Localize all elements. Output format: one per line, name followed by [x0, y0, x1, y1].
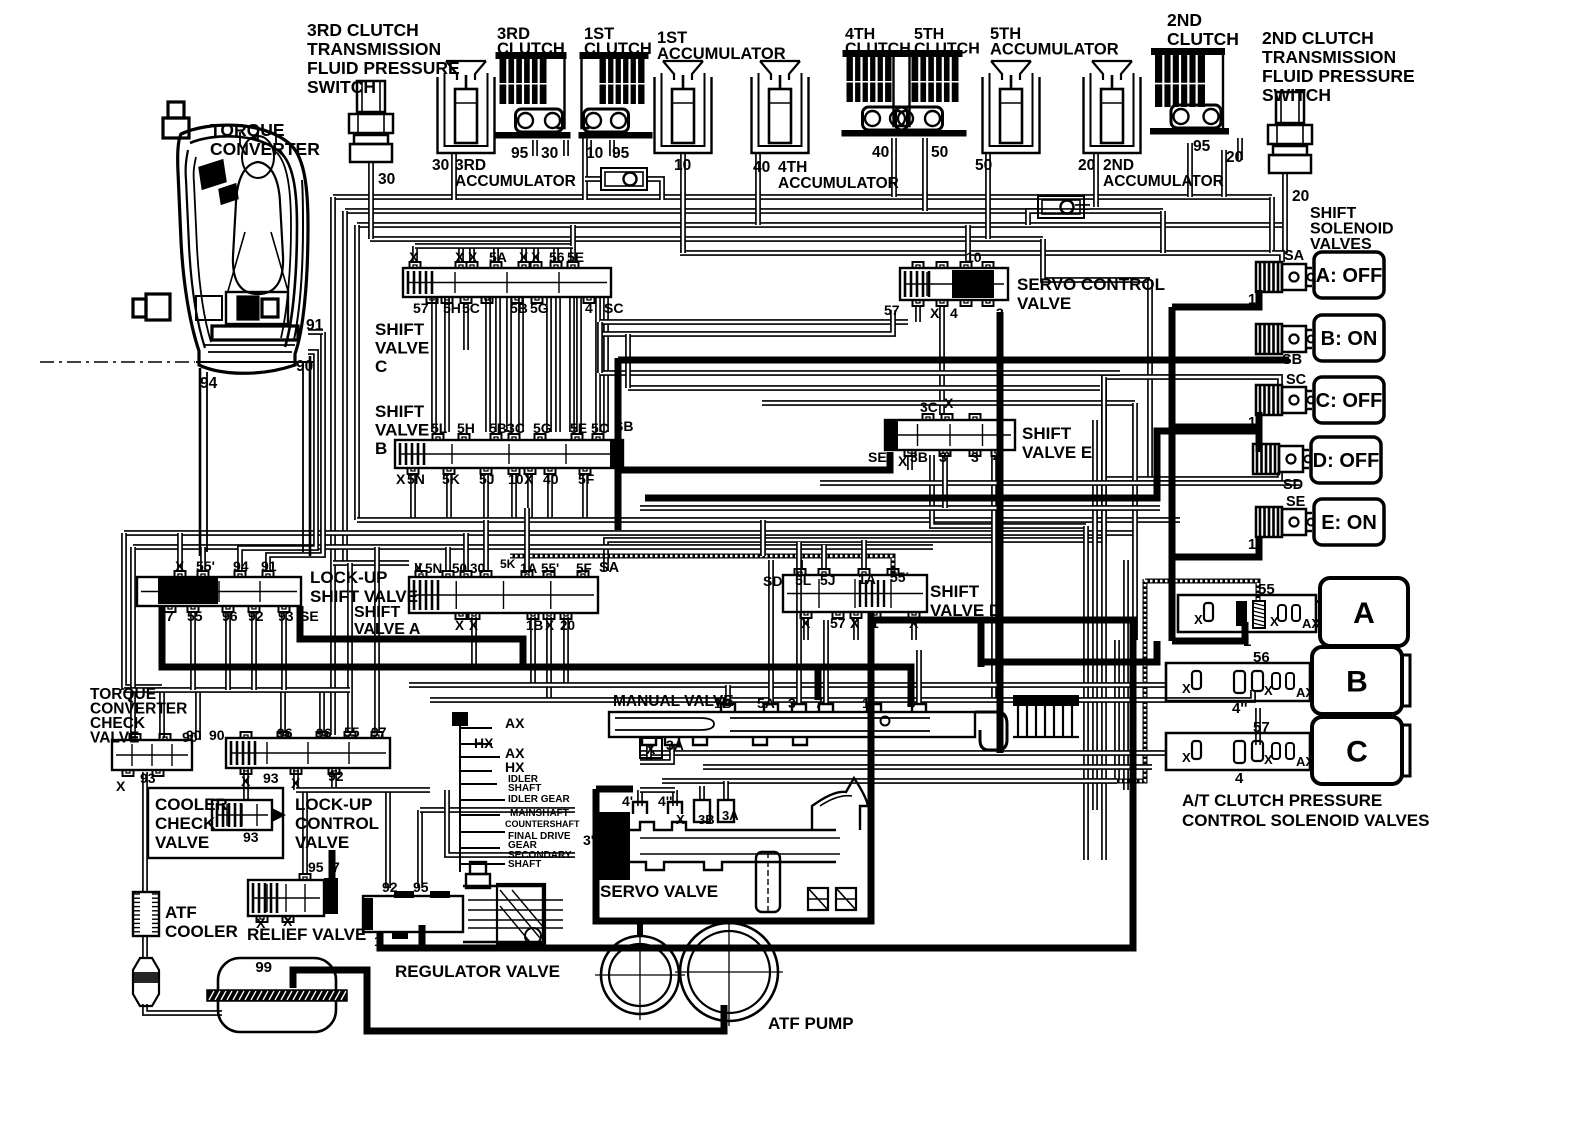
- wire valve C port 606 down: [603, 297, 609, 432]
- svg-text:SHIFT: SHIFT: [1310, 205, 1356, 222]
- wire 3rd clutch 95 stub: [532, 140, 538, 156]
- wire 5th accumulator 50 drop: [985, 153, 991, 239]
- svg-text:92: 92: [248, 608, 264, 624]
- svg-text:X: X: [801, 615, 811, 631]
- 4th clutch: [842, 50, 916, 137]
- svg-text:SOLENOID: SOLENOID: [1310, 221, 1394, 238]
- 5th accumulator: [983, 61, 1040, 153]
- svg-text:X: X: [175, 558, 185, 574]
- svg-text:5B: 5B: [510, 300, 528, 316]
- svg-text:FLUID PRESSURE: FLUID PRESSURE: [307, 58, 460, 78]
- solenoid SD: [1253, 444, 1312, 474]
- wire valve A riser 1A: [524, 508, 530, 572]
- wire lockup ctl feed: [280, 690, 286, 733]
- svg-text:4: 4: [950, 305, 958, 321]
- svg-text:40: 40: [872, 144, 889, 161]
- wire servo ctl 57 drop: [915, 306, 921, 322]
- servo valve black piston: [598, 812, 630, 880]
- svg-text:E: ON: E: ON: [1321, 512, 1377, 534]
- check valve near 1st clutch: [601, 168, 647, 190]
- wire valve A riser 5N: [445, 547, 451, 572]
- 3rd clutch: [495, 52, 571, 139]
- wire low run y767: [703, 764, 1152, 770]
- svg-text:X: X: [524, 471, 534, 487]
- svg-text:SE: SE: [300, 608, 319, 624]
- svg-text:1A: 1A: [520, 561, 538, 576]
- wire valve C port 498 down: [495, 297, 501, 432]
- svg-text:5L: 5L: [795, 572, 812, 588]
- svg-text:SHIFT: SHIFT: [930, 582, 980, 601]
- wire lockup ctl drop 2: [331, 770, 337, 790]
- wire valve B port 514 down: [511, 474, 517, 520]
- A/T clutch pressure control solenoid A: [1178, 595, 1316, 632]
- wire manual X down: [646, 745, 652, 762]
- solenoid D OFF box: [1311, 437, 1381, 483]
- svg-text:ACCUMULATOR: ACCUMULATOR: [778, 175, 899, 192]
- wire mid run y373: [600, 370, 1120, 376]
- wire valve C port 447 down: [444, 297, 450, 432]
- svg-text:96: 96: [316, 725, 332, 741]
- svg-text:X: X: [409, 249, 419, 265]
- wire valve A riser 30: [483, 520, 489, 572]
- wire valve B port 550 down: [547, 474, 553, 520]
- bold lock-up SE: [300, 606, 523, 667]
- shift valve B: [395, 434, 623, 474]
- servo small hatched boxes: [808, 888, 828, 910]
- svg-text:X: X: [469, 618, 478, 633]
- svg-text:3': 3': [939, 449, 950, 465]
- relief valve: [248, 874, 324, 922]
- wire 4th clutch 40 drop: [891, 138, 897, 197]
- wire left bundle 2: [342, 211, 348, 563]
- wire lockup ctl to cooler check: [243, 770, 249, 800]
- svg-text:93: 93: [263, 770, 279, 786]
- wire mid run y533: [124, 530, 1133, 536]
- svg-text:5G: 5G: [533, 420, 552, 436]
- wire valve D stub 1A: [861, 540, 867, 568]
- wire valve C port 572 down: [569, 297, 575, 432]
- wire 3rd switch 30 drop: [368, 162, 374, 239]
- wire SD feed: [1104, 472, 1280, 479]
- wire 2nd clutch 95 drop: [1187, 143, 1193, 197]
- svg-text:VALVE E: VALVE E: [1022, 443, 1092, 462]
- svg-text:SA: SA: [599, 560, 620, 576]
- svg-text:57: 57: [1253, 719, 1270, 736]
- svg-text:96: 96: [277, 725, 293, 741]
- svg-text:TRANSMISSION: TRANSMISSION: [1262, 47, 1396, 67]
- wire C 57 feed: [1255, 708, 1261, 745]
- svg-text:95: 95: [511, 145, 529, 162]
- svg-text:VALVE D: VALVE D: [930, 601, 1001, 620]
- svg-text:3: 3: [788, 695, 796, 711]
- svg-text:5B: 5B: [489, 420, 507, 436]
- wire low run y790: [296, 787, 430, 793]
- wire servo 4'' feed: [672, 790, 678, 806]
- svg-text:5A: 5A: [757, 695, 775, 711]
- wire lockup valve drop 96: [225, 612, 231, 690]
- svg-text:93: 93: [243, 829, 259, 845]
- svg-text:ACCUMULATOR: ACCUMULATOR: [455, 173, 576, 190]
- lube line vertical: [775, 579, 1145, 781]
- wire valve C top header: [415, 243, 573, 249]
- wire valve C port 509 down: [506, 297, 512, 432]
- wire manual 7: [823, 620, 829, 704]
- servo control valve spool black: [952, 270, 994, 298]
- wire valve C port 434 down: [431, 297, 437, 432]
- svg-text:3RD: 3RD: [455, 157, 486, 174]
- torque converter: [133, 102, 308, 373]
- svg-text:2ND: 2ND: [1167, 10, 1202, 30]
- wire mid run y403: [762, 400, 1135, 406]
- wire mid run y520: [357, 517, 1180, 523]
- wire valve B port 530 down: [527, 474, 533, 520]
- svg-text:92: 92: [328, 768, 344, 784]
- svg-text:2ND: 2ND: [1103, 157, 1134, 174]
- svg-text:A/T CLUTCH PRESSURE: A/T CLUTCH PRESSURE: [1182, 791, 1382, 810]
- svg-text:57: 57: [884, 302, 900, 318]
- svg-text:5G: 5G: [530, 300, 549, 316]
- wire funnel to strainer: [145, 1004, 222, 1013]
- svg-text:1: 1: [1248, 537, 1256, 553]
- wire vertical 1086: [1083, 526, 1089, 860]
- svg-text:X: X: [455, 249, 465, 265]
- shift valve E: [885, 414, 1015, 456]
- svg-text:X: X: [1270, 614, 1279, 629]
- wire valve E drop x945: [942, 455, 948, 508]
- wire check valve 1 left: [585, 176, 601, 182]
- torque converter lower housing: [200, 356, 310, 556]
- manual valve: [609, 704, 1007, 750]
- wire valve C top stub 496: [493, 246, 499, 262]
- svg-text:SHAFT: SHAFT: [508, 783, 541, 794]
- wire manual 3A down: [640, 745, 672, 762]
- wire cooler feed: [142, 772, 148, 892]
- gear train comb: [460, 722, 505, 872]
- wire mid run y547: [133, 544, 933, 550]
- solenoid SB: [1256, 324, 1315, 354]
- svg-text:20: 20: [1226, 149, 1243, 166]
- svg-text:X: X: [1182, 681, 1191, 696]
- svg-text:X: X: [1264, 683, 1273, 698]
- torque converter check valve: [112, 734, 192, 776]
- 4th accumulator: [752, 61, 809, 153]
- svg-text:X: X: [898, 453, 908, 469]
- svg-text:LOCK-UP: LOCK-UP: [295, 795, 372, 814]
- wire 2nd clutch 20 drop: [1221, 150, 1227, 197]
- wire port 55 riser: [200, 547, 206, 571]
- wire 5th clutch 50 drop: [922, 138, 928, 211]
- svg-text:20: 20: [1292, 188, 1309, 205]
- svg-text:1: 1: [374, 933, 382, 949]
- svg-text:5N: 5N: [425, 561, 442, 576]
- port X boxed: [640, 738, 662, 758]
- solenoid E ON box: [1314, 499, 1384, 545]
- svg-text:3A: 3A: [722, 808, 739, 823]
- svg-text:93: 93: [278, 608, 294, 624]
- svg-text:50: 50: [975, 157, 992, 174]
- svg-text:4: 4: [585, 300, 593, 316]
- svg-text:ACCUMULATOR: ACCUMULATOR: [990, 41, 1119, 59]
- wire valve C top stub 524: [521, 246, 527, 262]
- wire low run y781: [662, 778, 1117, 784]
- svg-text:5K: 5K: [500, 557, 516, 571]
- 2nd clutch pressure switch: [1268, 92, 1312, 173]
- svg-text:10: 10: [508, 471, 524, 487]
- wire run y810: [420, 807, 575, 813]
- lock-up shift valve: [137, 571, 301, 612]
- bold stub: [815, 667, 822, 700]
- wire mid run y388: [628, 385, 1100, 391]
- wire top run 1: [333, 194, 1272, 200]
- shift valve D: [783, 569, 927, 618]
- svg-text:30: 30: [378, 171, 395, 188]
- svg-text:5F: 5F: [578, 471, 595, 487]
- wire lockup ctl feed 3: [347, 563, 353, 733]
- svg-text:SB: SB: [614, 418, 633, 434]
- bold to solenoid D: [645, 431, 1259, 498]
- svg-text:SERVO VALVE: SERVO VALVE: [600, 882, 718, 901]
- svg-text:1B: 1B: [526, 618, 544, 633]
- svg-text:X: X: [676, 812, 685, 827]
- svg-text:COUNTERSHAFT: COUNTERSHAFT: [505, 819, 580, 829]
- bold pump feed: [637, 921, 643, 937]
- wire top run 3: [357, 222, 1283, 228]
- wire manual 1B: [725, 685, 731, 704]
- wire top right elbow 2: [1160, 211, 1166, 253]
- wire run y508: [640, 505, 1160, 511]
- svg-text:3A: 3A: [666, 737, 684, 753]
- svg-text:7: 7: [166, 608, 174, 624]
- svg-text:55: 55: [344, 724, 360, 740]
- wire regulator 95 feed: [417, 810, 423, 888]
- svg-text:5E: 5E: [567, 249, 584, 265]
- wire valve D stub 5L: [797, 560, 803, 568]
- svg-text:56: 56: [549, 249, 565, 265]
- wire lockup ctl feed 2: [319, 690, 325, 733]
- svg-text:X: X: [646, 741, 656, 757]
- 1st accumulator: [655, 61, 712, 153]
- wire left bundle 3: [354, 225, 360, 520]
- svg-text:94: 94: [233, 558, 249, 574]
- svg-text:X: X: [396, 471, 406, 487]
- svg-text:3C: 3C: [507, 420, 525, 436]
- svg-text:10: 10: [966, 249, 982, 265]
- shift valve C: [403, 262, 611, 303]
- svg-text:X: X: [468, 249, 478, 265]
- svg-text:VALVE: VALVE: [295, 833, 349, 852]
- svg-text:C: OFF: C: OFF: [1316, 390, 1383, 412]
- ATF pump gear 2: [680, 923, 778, 1021]
- svg-text:3B: 3B: [910, 449, 928, 465]
- wire low run y700 to B 56: [430, 690, 1253, 700]
- hatched vent: [452, 712, 468, 726]
- wire relief 95 feed: [302, 790, 308, 874]
- bold main line 1 to manual valve: [162, 606, 911, 707]
- svg-text:30: 30: [470, 561, 485, 576]
- wire port X riser: [177, 533, 183, 571]
- svg-text:SD: SD: [763, 573, 782, 589]
- wire valve C top stub 573: [570, 246, 576, 262]
- svg-text:5L: 5L: [431, 420, 448, 436]
- svg-text:5N: 5N: [407, 471, 425, 487]
- svg-text:56: 56: [1253, 649, 1270, 666]
- svg-text:90: 90: [209, 727, 225, 743]
- svg-text:VALVE: VALVE: [155, 833, 209, 852]
- 3rd clutch pressure switch: [349, 81, 393, 162]
- wire 3rd accumulator drop: [451, 153, 457, 200]
- svg-text:SA: SA: [1284, 248, 1305, 264]
- svg-text:B: B: [375, 439, 387, 458]
- svg-text:57: 57: [413, 300, 429, 316]
- wire valve D drop: [853, 619, 859, 640]
- wire left drop 2: [130, 547, 136, 740]
- wire valve D drop2: [911, 619, 917, 640]
- wire valve E stub: [907, 455, 913, 470]
- svg-text:X: X: [116, 778, 126, 794]
- wire TC check 90 riser: [159, 687, 165, 738]
- svg-text:X: X: [909, 615, 919, 631]
- wire valve B port 449 down: [446, 474, 452, 520]
- bold relief 7 feed: [329, 850, 336, 878]
- 1st clutch: [579, 52, 653, 139]
- svg-text:A: A: [1353, 597, 1375, 630]
- wire lockup ctl drop: [293, 770, 299, 790]
- wire manual 5A: [768, 560, 774, 704]
- svg-text:HX: HX: [474, 735, 494, 751]
- wire valve C top stub 415: [412, 246, 418, 262]
- svg-text:5J: 5J: [820, 572, 836, 588]
- svg-text:5H: 5H: [443, 300, 461, 316]
- svg-text:4: 4: [993, 449, 1001, 465]
- bold manual to servo: [868, 612, 875, 789]
- svg-text:X: X: [414, 561, 423, 576]
- wire valve B port 585 down: [582, 474, 588, 520]
- wire manual 3: [796, 542, 802, 704]
- wire manual 4: [916, 650, 922, 704]
- svg-text:99: 99: [255, 959, 272, 976]
- wire 4th accumulator 40 drop: [755, 153, 761, 225]
- svg-text:10: 10: [674, 157, 691, 174]
- svg-text:50: 50: [931, 144, 948, 161]
- svg-text:X: X: [930, 305, 940, 321]
- svg-text:57: 57: [830, 615, 846, 631]
- svg-text:D: OFF: D: OFF: [1313, 450, 1380, 472]
- regulator valve: [363, 862, 563, 944]
- svg-text:50: 50: [452, 561, 467, 576]
- lube line to solenoid A 55: [1145, 581, 1258, 600]
- svg-text:X: X: [850, 615, 860, 631]
- wire elbow2: [625, 334, 631, 388]
- svg-text:MAINSHAFT: MAINSHAFT: [510, 808, 569, 819]
- svg-text:C: C: [375, 357, 387, 376]
- svg-text:55: 55: [187, 608, 203, 624]
- wire vertical 1095: [1092, 420, 1098, 810]
- wire check valve 1 right: [647, 179, 662, 200]
- wire valve A drop 1: [471, 617, 477, 667]
- wire TC 90 drop to port 94: [240, 352, 316, 571]
- svg-text:1: 1: [871, 615, 879, 631]
- svg-text:VALVE: VALVE: [375, 421, 429, 440]
- wire SA from valve A: [606, 540, 1104, 571]
- wire servo 3A feed: [723, 781, 729, 800]
- svg-text:3: 3: [971, 449, 979, 465]
- bold strainer to pump: [293, 970, 724, 1031]
- wire 1st clutch 95 stub: [609, 140, 615, 156]
- svg-text:7: 7: [815, 695, 823, 711]
- wire valve C port 579 down: [576, 297, 582, 432]
- wire valve E 4 drop: [991, 455, 997, 700]
- svg-text:94: 94: [200, 375, 218, 392]
- svg-text:X: X: [1264, 752, 1273, 767]
- svg-text:SERVO CONTROL: SERVO CONTROL: [1017, 275, 1165, 294]
- wire valve C 5C stub: [463, 305, 469, 350]
- svg-text:10: 10: [586, 145, 603, 162]
- wire regulator 92 feed: [385, 790, 391, 888]
- wire lockup valve drop 93: [281, 612, 287, 690]
- wire header up: [570, 225, 576, 246]
- solenoid C OFF box: [1314, 377, 1384, 423]
- bold regulator out: [380, 648, 1133, 948]
- wire lockup ctl feed 4: [374, 547, 380, 733]
- manual valve detent comb: [1013, 695, 1079, 706]
- svg-text:40: 40: [543, 471, 559, 487]
- wire valve C top stub 472: [469, 246, 475, 262]
- svg-text:SHIFT: SHIFT: [1022, 424, 1072, 443]
- wire clutch center drop: [582, 133, 588, 200]
- svg-text:97: 97: [371, 724, 387, 740]
- svg-text:SE: SE: [1286, 494, 1306, 510]
- svg-text:5H: 5H: [457, 420, 475, 436]
- A/T clutch pressure control solenoid B: [1166, 663, 1310, 701]
- 3rd accumulator: [438, 61, 495, 153]
- svg-text:SWITCH: SWITCH: [1262, 85, 1331, 105]
- svg-text:CLUTCH: CLUTCH: [1167, 29, 1239, 49]
- bold solenoid E 1: [1172, 536, 1259, 557]
- svg-text:REGULATOR VALVE: REGULATOR VALVE: [395, 962, 560, 981]
- wire 1st clutch 10 stub: [586, 140, 592, 156]
- svg-text:4'': 4'': [1232, 700, 1247, 717]
- svg-text:C: C: [1346, 736, 1368, 769]
- solenoid SC: [1256, 385, 1315, 415]
- wire 2nd switch 20 drop: [1282, 173, 1288, 253]
- wire 2nd clutch 20 stub: [1237, 138, 1243, 160]
- svg-text:VALVE: VALVE: [375, 339, 429, 358]
- wire vertical 1135: [1132, 403, 1138, 640]
- bold drop x981: [978, 620, 985, 667]
- svg-text:VALVE A: VALVE A: [354, 621, 421, 638]
- bold solenoid A 1: [1172, 290, 1259, 307]
- svg-text:20: 20: [1078, 157, 1095, 174]
- svg-text:X: X: [531, 249, 541, 265]
- ATF strainer: [218, 958, 336, 1032]
- wire valve D stub 5J: [821, 545, 827, 568]
- wire low run y685: [409, 682, 1166, 688]
- svg-text:96: 96: [222, 608, 238, 624]
- svg-text:1B: 1B: [714, 695, 732, 711]
- svg-text:30: 30: [432, 157, 449, 174]
- wire SC feed: [1104, 377, 1280, 540]
- wire valve C port 521 down: [518, 297, 524, 432]
- svg-text:SHIFT: SHIFT: [354, 604, 400, 621]
- bold to valve E SE: [618, 452, 890, 470]
- wire vertical 1117: [1114, 640, 1120, 783]
- svg-text:95: 95: [612, 145, 630, 162]
- wire low left run: [124, 687, 350, 693]
- svg-text:SC: SC: [1286, 372, 1307, 388]
- svg-text:40: 40: [753, 159, 770, 176]
- bold servo control 3 drop: [997, 312, 1004, 753]
- wire top right elbow: [1269, 197, 1275, 253]
